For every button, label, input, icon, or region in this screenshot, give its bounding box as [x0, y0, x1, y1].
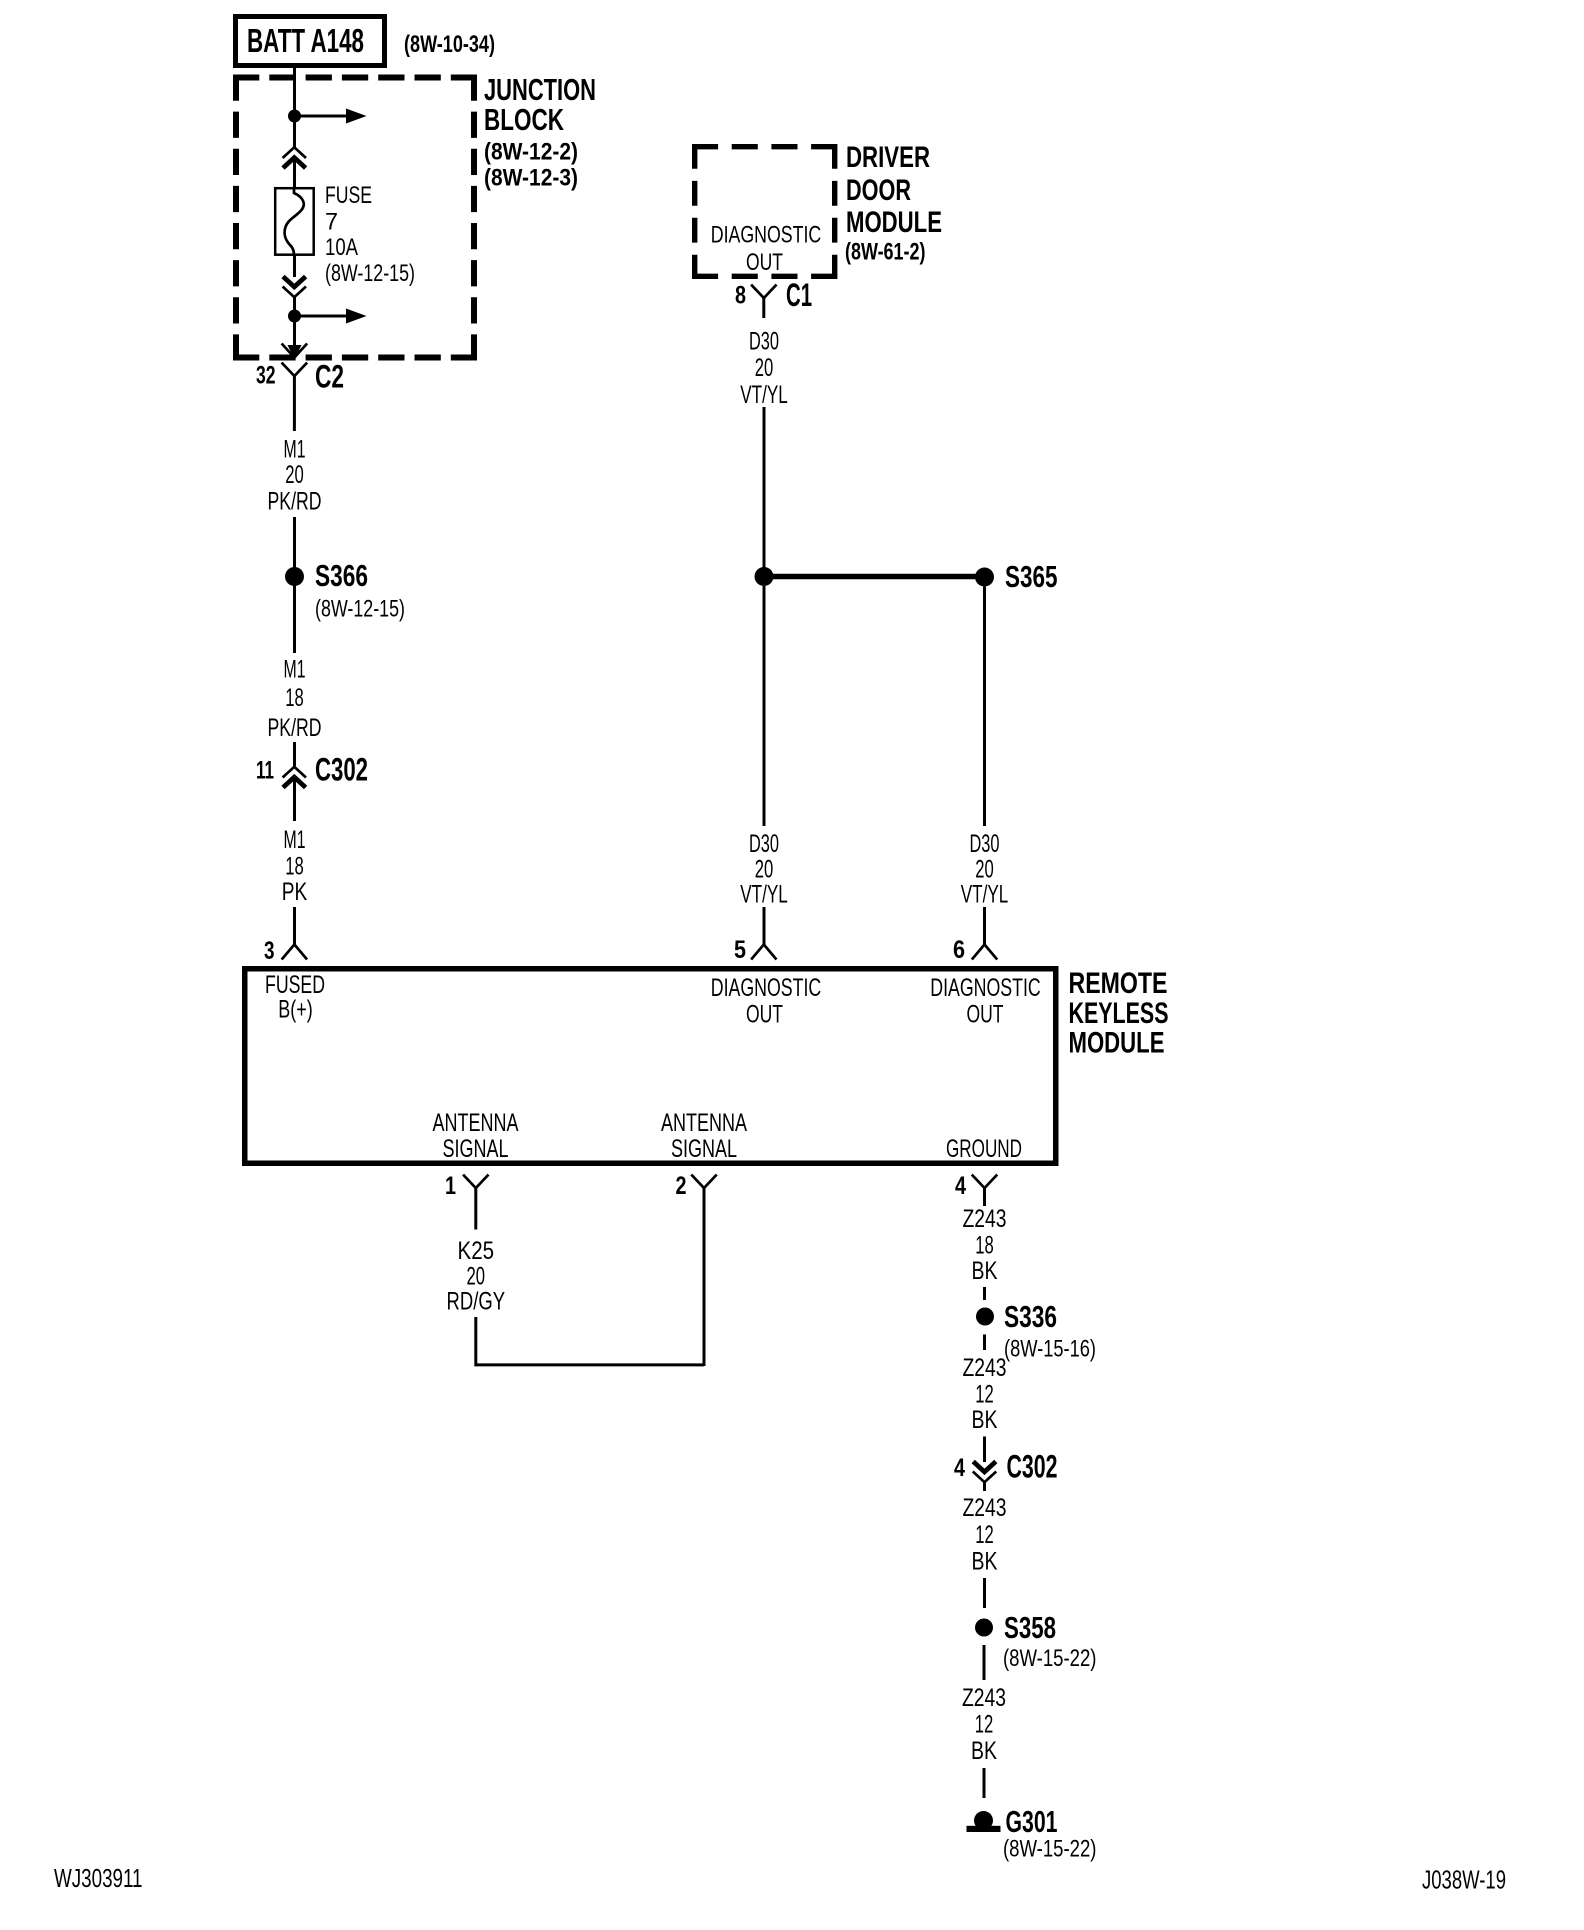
arrow feed right 1	[295, 109, 367, 124]
svg-text:K25: K25	[458, 1237, 495, 1265]
svg-text:B(+): B(+)	[278, 996, 313, 1024]
svg-text:(8W-15-22): (8W-15-22)	[1003, 1645, 1097, 1672]
svg-text:D30: D30	[749, 328, 779, 356]
module pin 3	[264, 937, 306, 965]
svg-text:20: 20	[467, 1263, 486, 1291]
wire label D30 20 VT/YL (pin 5 branch)	[740, 830, 788, 909]
svg-text:DOOR: DOOR	[846, 174, 911, 207]
svg-text:(8W-12-15): (8W-12-15)	[315, 596, 405, 623]
svg-text:S358: S358	[1004, 1610, 1056, 1645]
svg-text:1: 1	[445, 1172, 456, 1200]
svg-text:Z243: Z243	[963, 1354, 1007, 1382]
svg-text:10A: 10A	[325, 234, 358, 261]
svg-text:PK/RD: PK/RD	[268, 488, 322, 516]
in-block connector chevrons (down)	[283, 277, 306, 298]
svg-text:BK: BK	[972, 1548, 998, 1576]
svg-text:MODULE: MODULE	[1069, 1027, 1165, 1060]
svg-text:6: 6	[953, 936, 965, 964]
svg-text:S365: S365	[1005, 559, 1058, 594]
wire pin2 down	[703, 1198, 706, 1367]
svg-text:DRIVER: DRIVER	[846, 141, 930, 174]
svg-text:ANTENNA: ANTENNA	[661, 1109, 747, 1137]
svg-text:OUT: OUT	[746, 1001, 783, 1029]
svg-text:18: 18	[975, 1232, 994, 1260]
driver door module label	[845, 141, 942, 266]
svg-text:Z243: Z243	[963, 1205, 1007, 1233]
driver door module dashed box	[692, 144, 837, 279]
wire	[293, 779, 296, 821]
in-block connector chevrons (up)	[283, 147, 306, 168]
wire pin4 down	[983, 1198, 986, 1207]
fuse label	[325, 182, 415, 287]
wire label M1 20 PK/RD	[268, 436, 322, 516]
svg-text:(8W-12-2): (8W-12-2)	[484, 139, 578, 166]
wire label M1 18 PK	[282, 826, 308, 906]
connector C2 (pin 32)	[256, 345, 344, 432]
svg-text:C1: C1	[786, 277, 812, 313]
remote keyless module box	[245, 969, 1056, 1164]
module pin 5	[734, 936, 776, 964]
ground G301	[967, 1804, 1097, 1863]
svg-text:18: 18	[285, 684, 304, 712]
wire	[983, 587, 986, 827]
svg-text:KEYLESS: KEYLESS	[1069, 997, 1169, 1030]
svg-text:3: 3	[264, 937, 275, 965]
module pin 4	[955, 1172, 996, 1200]
svg-text:BLOCK: BLOCK	[484, 102, 564, 137]
svg-text:DIAGNOSTIC: DIAGNOSTIC	[711, 974, 822, 1002]
svg-text:BK: BK	[972, 1257, 998, 1285]
connector C1 (pin 8)	[735, 277, 812, 318]
svg-text:VT/YL: VT/YL	[740, 381, 788, 409]
wire	[983, 1437, 986, 1463]
svg-text:S366: S366	[315, 558, 368, 593]
splice S358	[975, 1610, 1056, 1645]
splice S366	[285, 558, 405, 623]
svg-text:20: 20	[755, 856, 774, 884]
module pin 6	[953, 936, 996, 964]
svg-text:20: 20	[285, 461, 304, 489]
battery feed box BATT A148	[236, 17, 385, 66]
svg-text:J038W-19: J038W-19	[1422, 1865, 1506, 1895]
svg-text:FUSE: FUSE	[325, 182, 372, 209]
junction block label	[484, 72, 596, 192]
wire label Z243 12 BK	[963, 1494, 1007, 1576]
svg-text:(8W-12-15): (8W-12-15)	[325, 260, 415, 287]
svg-text:7: 7	[325, 209, 338, 236]
svg-text:Z243: Z243	[963, 1494, 1007, 1522]
svg-text:G301: G301	[1006, 1804, 1058, 1839]
svg-text:32: 32	[256, 362, 276, 390]
wire label D30 20 VT/YL (pin 6 branch)	[961, 830, 1009, 909]
svg-text:ANTENNA: ANTENNA	[433, 1109, 519, 1137]
svg-text:VT/YL: VT/YL	[961, 881, 1009, 909]
pin label ANTENNA SIGNAL (pin 1)	[433, 1109, 519, 1163]
wire fuse to connector	[293, 255, 296, 277]
svg-text:C302: C302	[1007, 1449, 1058, 1485]
node dot (feed junction 2)	[288, 310, 301, 323]
svg-text:12: 12	[975, 1711, 994, 1739]
pin label FUSED B(+)	[265, 971, 325, 1024]
arrow feed right 2	[295, 309, 367, 324]
svg-text:12: 12	[975, 1381, 994, 1409]
svg-text:12: 12	[975, 1521, 994, 1549]
wire label K25 20 RD/GY	[447, 1237, 506, 1316]
svg-text:(8W-61-2): (8W-61-2)	[845, 239, 926, 266]
junction block dashed box	[233, 75, 477, 361]
wire	[293, 907, 296, 945]
wire	[983, 1335, 986, 1351]
svg-text:DIAGNOSTIC: DIAGNOSTIC	[930, 974, 1041, 1002]
pin label DIAGNOSTIC OUT (pin 6)	[930, 974, 1041, 1029]
wire	[983, 1287, 986, 1300]
wire	[763, 907, 766, 945]
svg-text:C302: C302	[315, 752, 368, 788]
svg-text:VT/YL: VT/YL	[740, 881, 788, 909]
svg-text:S336: S336	[1004, 1299, 1057, 1334]
svg-text:DIAGNOSTIC: DIAGNOSTIC	[711, 222, 822, 249]
svg-text:OUT: OUT	[746, 249, 783, 276]
svg-text:RD/GY: RD/GY	[447, 1288, 506, 1316]
antenna loop wire	[476, 1317, 704, 1365]
wire label Z243 12 BK	[962, 1684, 1006, 1765]
wire	[983, 1768, 986, 1798]
svg-text:M1: M1	[284, 656, 306, 684]
connector C302 (pin 11)	[256, 752, 368, 788]
wire	[983, 1645, 986, 1680]
wire label Z243 12 BK	[963, 1354, 1007, 1434]
wire	[293, 517, 296, 570]
svg-text:4: 4	[955, 1172, 966, 1200]
svg-text:WJ303911: WJ303911	[54, 1863, 143, 1893]
wire to node dot 2	[293, 297, 296, 352]
wire	[763, 407, 766, 570]
module pin 1	[445, 1172, 488, 1200]
splice S336	[976, 1299, 1057, 1334]
wire	[763, 586, 766, 826]
wire chevron to fuse	[293, 160, 296, 189]
connector C302 (pin 4)	[954, 1449, 1058, 1492]
wire	[293, 742, 296, 766]
wire label D30 20 VT/YL	[740, 328, 788, 410]
svg-text:REMOTE: REMOTE	[1069, 967, 1168, 1000]
wire	[293, 583, 296, 653]
svg-text:(8W-10-34): (8W-10-34)	[404, 31, 495, 58]
wire	[983, 1578, 986, 1608]
svg-text:BK: BK	[972, 1406, 998, 1434]
svg-text:20: 20	[755, 354, 774, 382]
svg-text:PK/RD: PK/RD	[268, 714, 322, 742]
svg-text:20: 20	[975, 856, 994, 884]
svg-text:BATT A148: BATT A148	[247, 22, 364, 59]
svg-text:M1: M1	[284, 436, 306, 464]
wire from BATT A148 into junction block	[293, 68, 296, 148]
svg-text:11: 11	[256, 757, 274, 785]
svg-text:OUT: OUT	[967, 1001, 1004, 1029]
svg-text:Z243: Z243	[962, 1684, 1006, 1712]
pin label ANTENNA SIGNAL (pin 2)	[661, 1109, 747, 1163]
module pin 2	[676, 1172, 716, 1200]
node dot (feed junction 1)	[288, 110, 301, 123]
svg-text:SIGNAL: SIGNAL	[671, 1135, 737, 1163]
svg-text:C2: C2	[315, 359, 344, 395]
driver door module pin label DIAGNOSTIC OUT	[711, 222, 822, 277]
wire pin1 down	[474, 1198, 477, 1230]
svg-text:GROUND: GROUND	[946, 1135, 1022, 1163]
wire label M1 18 PK/RD	[268, 656, 322, 743]
svg-text:D30: D30	[749, 830, 779, 858]
svg-text:(8W-15-22): (8W-15-22)	[1003, 1836, 1097, 1863]
wire	[983, 907, 986, 945]
svg-text:5: 5	[734, 936, 746, 964]
fuse 7 10A	[275, 188, 314, 255]
svg-text:BK: BK	[971, 1737, 997, 1765]
svg-text:PK: PK	[282, 878, 308, 906]
svg-text:(8W-12-3): (8W-12-3)	[484, 165, 578, 192]
svg-text:M1: M1	[284, 826, 306, 854]
svg-text:4: 4	[954, 1454, 965, 1482]
svg-text:(8W-15-16): (8W-15-16)	[1004, 1336, 1096, 1363]
remote keyless module label	[1069, 967, 1169, 1060]
svg-text:2: 2	[676, 1172, 687, 1200]
splice S365	[755, 559, 1058, 594]
pin label DIAGNOSTIC OUT (pin 5)	[711, 974, 822, 1029]
svg-text:18: 18	[285, 853, 304, 881]
svg-text:8: 8	[735, 282, 746, 310]
svg-text:D30: D30	[970, 830, 1000, 858]
svg-text:MODULE: MODULE	[846, 206, 942, 239]
svg-text:SIGNAL: SIGNAL	[443, 1135, 509, 1163]
wire label Z243 18 BK	[963, 1205, 1007, 1285]
